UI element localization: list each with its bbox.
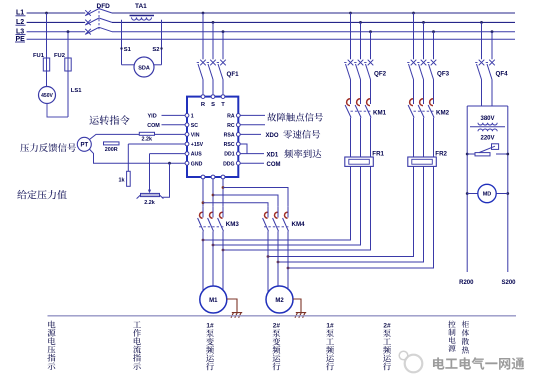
svg-text:2.2k: 2.2k bbox=[142, 137, 153, 143]
resistor R1 2.2k bbox=[139, 132, 154, 135]
wire W branch to KM4 bbox=[222, 186, 225, 189]
resistor R3 1k bbox=[127, 171, 131, 186]
voltmeter PV 450V bbox=[39, 87, 56, 104]
pin S bbox=[211, 95, 215, 99]
wire QF3 tap col 433.5 bbox=[432, 30, 435, 33]
svg-text:S200: S200 bbox=[501, 280, 516, 286]
label control power bbox=[448, 321, 455, 352]
wire U to KM3 bbox=[202, 179, 204, 206]
wire QF3 tap col 413.5 bbox=[412, 12, 415, 15]
svg-text:S1: S1 bbox=[124, 47, 132, 53]
wire QF3 tap col 423.5 bbox=[422, 21, 425, 24]
resistor R2 200R bbox=[104, 142, 120, 145]
wire KM2 to FR2 col 423.5 bbox=[423, 118, 425, 157]
ammeter SDA bbox=[134, 57, 154, 77]
inverter U1 (VFD) body bbox=[187, 97, 238, 177]
thermal relay FR1 bbox=[345, 157, 374, 166]
svg-text:2#: 2# bbox=[383, 323, 391, 330]
ground motor M1 bbox=[227, 299, 242, 318]
wire pin RSA out bbox=[240, 133, 261, 135]
cooling fan MD bbox=[466, 192, 469, 195]
wire L1 tap to QF1 bbox=[202, 12, 205, 15]
svg-text:SC: SC bbox=[191, 123, 198, 129]
wire L1 tap to FU1 bbox=[45, 12, 48, 15]
pin SC bbox=[185, 123, 189, 127]
wire L3 tap to QF4 bbox=[491, 30, 494, 33]
wire L2 tap to QF1 bbox=[212, 21, 215, 24]
svg-text:RSC: RSC bbox=[224, 142, 235, 148]
wire KM1 to FR1 col 350.5 bbox=[350, 118, 352, 157]
potentiometer RP1 2.2k bbox=[141, 193, 160, 196]
wire COM to pin SC bbox=[162, 124, 186, 126]
pin AUS bbox=[185, 152, 189, 156]
svg-text:XD1: XD1 bbox=[267, 152, 279, 158]
motor M2 bbox=[266, 286, 293, 313]
svg-text:RSA: RSA bbox=[224, 133, 235, 139]
svg-text:KM1: KM1 bbox=[373, 110, 387, 117]
pin DDG bbox=[236, 161, 240, 165]
wire U branch to KM4 bbox=[202, 201, 205, 204]
svg-text:VIN: VIN bbox=[191, 133, 200, 139]
svg-text:PT: PT bbox=[80, 143, 88, 149]
wire FR1 output to motor M1 phase A bbox=[203, 166, 351, 240]
pin DD1 bbox=[236, 152, 240, 156]
svg-text:YID: YID bbox=[148, 114, 157, 120]
svg-text:RA: RA bbox=[227, 114, 235, 120]
svg-text:KM4: KM4 bbox=[292, 221, 306, 228]
thermostat switch ST bbox=[466, 153, 469, 156]
svg-text:M1: M1 bbox=[209, 298, 218, 304]
watermark text bbox=[433, 357, 524, 370]
svg-text:+15V: +15V bbox=[191, 142, 204, 148]
svg-text:LS1: LS1 bbox=[71, 88, 82, 94]
svg-text:S2: S2 bbox=[152, 47, 159, 53]
wire pin DDG out bbox=[240, 162, 264, 164]
wire KM2 to FR2 col 433.5 bbox=[433, 118, 435, 157]
svg-text:1: 1 bbox=[191, 114, 194, 120]
contactor KM3 main contacts bbox=[200, 212, 203, 218]
wire PT to resistor R1 bbox=[89, 134, 139, 139]
wire 220V rail R200 bbox=[466, 106, 468, 272]
wire QF2 tap col 360.5 bbox=[359, 21, 362, 24]
svg-text:XDO: XDO bbox=[266, 133, 279, 139]
node S1 bbox=[120, 47, 122, 49]
svg-text:380V: 380V bbox=[480, 116, 494, 122]
wire pin RSC link bbox=[240, 144, 247, 154]
wire voltmeter bottom loop bbox=[47, 104, 68, 118]
label cabinet cooling bbox=[462, 321, 469, 354]
svg-text:1k: 1k bbox=[119, 177, 125, 183]
svg-text:KM2: KM2 bbox=[436, 110, 450, 117]
wire L3 tap to QF1 bbox=[222, 30, 225, 33]
wire R1 to pin VIN bbox=[155, 133, 186, 135]
motor M1 bbox=[200, 286, 227, 313]
svg-text:R200: R200 bbox=[459, 280, 474, 286]
wire CT secondary S1 bbox=[121, 20, 123, 65]
pin V bbox=[211, 175, 215, 179]
svg-text:FR1: FR1 bbox=[372, 151, 384, 158]
svg-text:RC: RC bbox=[227, 123, 235, 129]
wire FR1 output to motor M1 phase B bbox=[213, 166, 361, 245]
svg-text:QF2: QF2 bbox=[374, 71, 387, 78]
label run command annotation bbox=[89, 115, 129, 125]
wire L3 tap to FU2 bbox=[67, 30, 70, 33]
svg-text:TA1: TA1 bbox=[135, 3, 147, 10]
wire V to KM3 bbox=[212, 179, 214, 206]
svg-text:DD1: DD1 bbox=[224, 152, 234, 158]
wire YID to pin 1 bbox=[162, 114, 186, 116]
wire KM1 to FR1 col 370.5 bbox=[370, 118, 372, 157]
pin VIN bbox=[185, 133, 189, 137]
node S2 bbox=[160, 47, 162, 49]
wire pin RA out bbox=[240, 114, 265, 116]
contactor KM2 main contacts bbox=[410, 99, 413, 106]
contactor KM4 main contacts bbox=[265, 212, 268, 218]
wire +15V to resistor R3 bbox=[127, 144, 129, 171]
label pressure feedback annotation bbox=[20, 143, 76, 152]
pin RA bbox=[236, 114, 240, 118]
wire FR2 output to motor M2 phase C bbox=[288, 166, 434, 268]
svg-text:SDA: SDA bbox=[138, 65, 150, 71]
svg-text:COM: COM bbox=[267, 162, 281, 168]
svg-text:GND: GND bbox=[191, 161, 203, 167]
wire FU1 to voltmeter bbox=[46, 71, 48, 87]
wire pin AUS to wiper bbox=[150, 153, 186, 155]
ground motor M2 bbox=[293, 299, 306, 318]
wire pin RC out bbox=[240, 124, 265, 126]
pin RSA bbox=[236, 133, 240, 137]
wire 220V rail S200 bbox=[507, 106, 509, 272]
svg-text:200R: 200R bbox=[105, 147, 118, 153]
wire PT low to pin GND bbox=[89, 149, 185, 163]
wire W to KM3 bbox=[222, 179, 224, 206]
wire +15V feed bbox=[128, 143, 185, 145]
svg-text:QF3: QF3 bbox=[437, 71, 450, 78]
pin GND bbox=[185, 161, 189, 165]
label working current indication bbox=[133, 321, 141, 370]
contactor KM1 main contacts bbox=[347, 99, 350, 106]
svg-text:2#: 2# bbox=[273, 323, 281, 330]
wire KM3 to motor M1 bbox=[202, 231, 204, 291]
svg-text:QF4: QF4 bbox=[496, 71, 509, 78]
svg-text:FU2: FU2 bbox=[54, 53, 65, 59]
pin R bbox=[201, 95, 205, 99]
svg-text:COM: COM bbox=[147, 123, 160, 129]
svg-text:T: T bbox=[221, 102, 225, 108]
svg-text:S: S bbox=[211, 102, 215, 108]
svg-text:KM3: KM3 bbox=[226, 221, 240, 228]
wire bottom separator rail bbox=[48, 315, 517, 317]
wire KM4 to motor M2 bbox=[267, 231, 269, 293]
watermark logo bbox=[405, 355, 423, 373]
wire FR2 output to motor M2 phase B bbox=[278, 166, 424, 262]
wire to ammeter bbox=[122, 64, 135, 66]
pin RSC bbox=[236, 142, 240, 146]
wire V branch to KM4 bbox=[212, 194, 215, 197]
svg-text:220V: 220V bbox=[480, 136, 494, 142]
wire GND to potentiometer bbox=[163, 163, 170, 197]
pin +15V bbox=[185, 142, 189, 146]
svg-text:2.2k: 2.2k bbox=[144, 200, 155, 206]
thermal relay FR2 bbox=[408, 157, 437, 166]
wire QF2 tap col 350.5 bbox=[349, 12, 352, 15]
wire FR2 output to motor M2 phase A bbox=[268, 166, 414, 256]
wire KM1 to FR1 col 360.5 bbox=[360, 118, 362, 157]
label set pressure annotation bbox=[17, 190, 67, 199]
pin RC bbox=[236, 123, 240, 127]
pin T bbox=[221, 95, 225, 99]
wire KM2 to FR2 col 413.5 bbox=[413, 118, 415, 157]
svg-text:DDG: DDG bbox=[223, 161, 235, 167]
svg-text:MD: MD bbox=[483, 192, 492, 198]
svg-text:1#: 1# bbox=[206, 323, 214, 330]
svg-text:450V: 450V bbox=[41, 93, 53, 99]
wire L2 tap to QF4 bbox=[480, 21, 483, 24]
wire CT secondary S2 bbox=[161, 20, 163, 65]
label fault contact annotation bbox=[267, 113, 323, 122]
pin W bbox=[221, 175, 225, 179]
pin U bbox=[201, 175, 205, 179]
label power voltage indication bbox=[47, 321, 55, 370]
node GND junction bbox=[168, 162, 171, 165]
svg-text:1#: 1# bbox=[326, 323, 334, 330]
svg-text:FR2: FR2 bbox=[435, 151, 447, 158]
svg-text:M2: M2 bbox=[275, 298, 284, 304]
pin 1 bbox=[185, 114, 189, 118]
wire QF2 tap col 370.5 bbox=[369, 30, 372, 33]
control transformer TC1 380V/220V bbox=[467, 105, 508, 107]
svg-text:AUS: AUS bbox=[191, 152, 202, 158]
wire FR1 output to motor M1 phase C bbox=[223, 166, 371, 250]
svg-text:QF1: QF1 bbox=[227, 71, 240, 78]
pressure transducer PT bbox=[77, 137, 91, 151]
wire pin DD1 out bbox=[240, 153, 264, 155]
